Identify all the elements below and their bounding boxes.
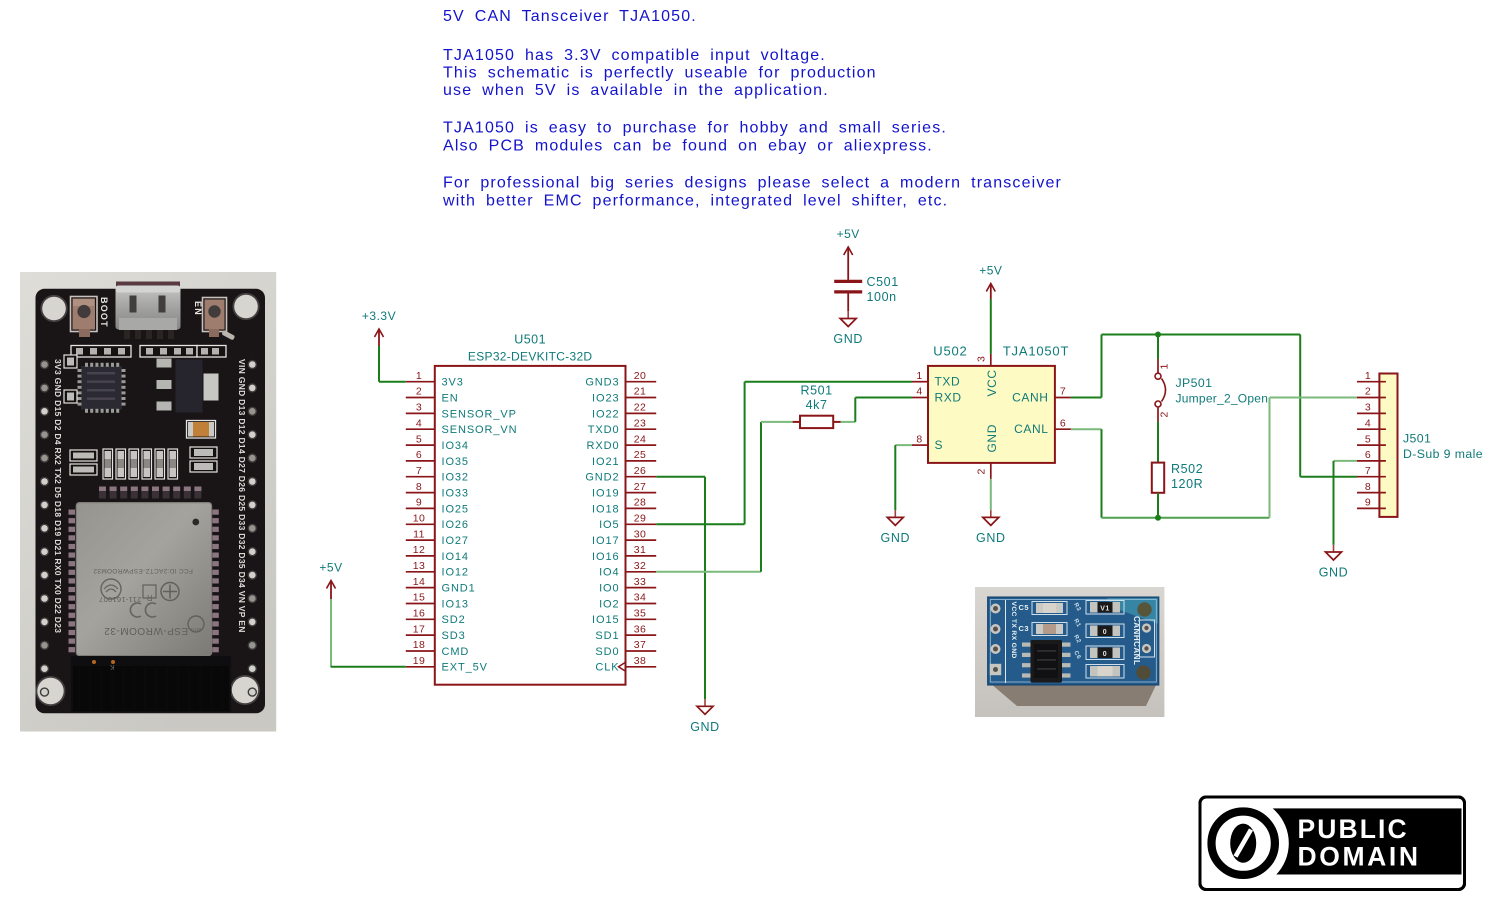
svg-text:20: 20	[634, 370, 646, 382]
svg-text:28: 28	[634, 497, 646, 509]
svg-text:26: 26	[634, 465, 646, 477]
svg-text:2: 2	[1159, 411, 1171, 417]
svg-text:CMD: CMD	[442, 646, 470, 658]
svg-text:RXD: RXD	[935, 390, 962, 404]
svg-text:IO18: IO18	[592, 503, 619, 515]
svg-text:+3.3V: +3.3V	[362, 309, 396, 323]
svg-text:7: 7	[1060, 386, 1066, 398]
svg-text:IO23: IO23	[592, 392, 619, 404]
svg-text:IO32: IO32	[442, 472, 469, 484]
svg-text:2: 2	[976, 468, 988, 474]
svg-text:IO13: IO13	[442, 598, 469, 610]
svg-text:GND: GND	[881, 531, 911, 545]
svg-text:1: 1	[916, 370, 922, 382]
svg-text:16: 16	[413, 608, 425, 620]
svg-text:8: 8	[1365, 481, 1371, 493]
svg-text:3: 3	[416, 402, 422, 414]
svg-text:9: 9	[1365, 497, 1371, 509]
svg-text:2: 2	[416, 386, 422, 398]
svg-text:3V3 GND D15 D2 D4 RX2 TX2 D5: 3V3 GND D15 D2 D4 RX2 TX2 D5 D18 D19 D21…	[53, 359, 63, 633]
svg-text:18: 18	[413, 639, 425, 651]
svg-text:35: 35	[634, 608, 646, 620]
svg-text:9: 9	[416, 497, 422, 509]
svg-text:IO21: IO21	[592, 456, 619, 468]
svg-text:use when 5V is available in th: use when 5V is available in the applicat…	[443, 82, 829, 99]
svg-text:TJA1050 has 3.3V compatible in: TJA1050 has 3.3V compatible input voltag…	[443, 47, 826, 64]
svg-text:27: 27	[634, 481, 646, 493]
svg-text:SENSOR_VN: SENSOR_VN	[442, 424, 518, 436]
svg-text:5V CAN Tansceiver TJA1050.: 5V CAN Tansceiver TJA1050.	[443, 8, 697, 25]
svg-text:19: 19	[413, 655, 425, 667]
svg-text:IO33: IO33	[442, 488, 469, 500]
svg-text:EXT_5V: EXT_5V	[442, 662, 488, 674]
svg-text:R: R	[146, 593, 152, 602]
svg-text:VIN GND D13 D12 D14 D27 D26 D2: VIN GND D13 D12 D14 D27 D26 D25 D33 D32 …	[237, 359, 247, 633]
svg-text:12: 12	[413, 544, 425, 556]
svg-text:6: 6	[416, 449, 422, 461]
svg-text:U501: U501	[514, 333, 546, 347]
svg-text:33: 33	[634, 576, 646, 588]
svg-text:GND: GND	[976, 531, 1006, 545]
svg-text:TJA1050T: TJA1050T	[1003, 344, 1069, 359]
svg-text:5: 5	[1365, 433, 1371, 445]
svg-text:D-Sub 9 male: D-Sub 9 male	[1403, 447, 1483, 461]
svg-text:CLK: CLK	[595, 662, 619, 674]
svg-text:8: 8	[416, 481, 422, 493]
svg-text:J501: J501	[1403, 432, 1431, 446]
svg-text:GND1: GND1	[442, 583, 476, 595]
svg-text:10: 10	[413, 513, 425, 525]
svg-text:ESP32-DEVKITC-32D: ESP32-DEVKITC-32D	[468, 350, 593, 364]
svg-text:37: 37	[634, 639, 646, 651]
svg-text:CANH: CANH	[1012, 390, 1048, 404]
svg-text:36: 36	[634, 623, 646, 635]
svg-text:VCC TX RX GND: VCC TX RX GND	[1010, 602, 1017, 659]
svg-text:IO14: IO14	[442, 551, 469, 563]
svg-text:IO5: IO5	[599, 519, 619, 531]
svg-text:+5V: +5V	[319, 561, 342, 575]
svg-text:IO26: IO26	[442, 519, 469, 531]
svg-text:wifi: wifi	[191, 626, 203, 632]
svg-text:IO17: IO17	[592, 535, 619, 547]
svg-text:21: 21	[634, 386, 646, 398]
svg-text:SD1: SD1	[595, 630, 619, 642]
svg-text:IO35: IO35	[442, 456, 469, 468]
svg-text:1: 1	[1159, 363, 1171, 369]
svg-text:34: 34	[634, 592, 646, 604]
svg-text:38: 38	[634, 655, 646, 667]
svg-text:3: 3	[976, 356, 988, 362]
svg-text:S: S	[935, 438, 944, 452]
svg-text:4: 4	[416, 417, 422, 429]
svg-text:4k7: 4k7	[806, 398, 828, 412]
svg-text:TXD: TXD	[935, 375, 961, 389]
svg-text:GND: GND	[833, 332, 863, 346]
svg-text:0: 0	[1103, 651, 1107, 658]
svg-text:+5V: +5V	[837, 227, 860, 241]
svg-text:2: 2	[1365, 386, 1371, 398]
svg-text:SD3: SD3	[442, 630, 466, 642]
svg-text:11: 11	[413, 528, 425, 540]
svg-text:CANL: CANL	[1014, 422, 1048, 436]
svg-text:IO27: IO27	[442, 535, 469, 547]
svg-text:ESP-WROOM-32: ESP-WROOM-32	[104, 625, 188, 636]
svg-text:25: 25	[634, 449, 646, 461]
svg-text:6: 6	[1060, 417, 1066, 429]
svg-text:EN: EN	[442, 392, 459, 404]
svg-text:EN: EN	[193, 301, 203, 316]
svg-text:R502: R502	[1171, 462, 1203, 476]
svg-text:IO15: IO15	[592, 614, 619, 626]
svg-text:with better EMC performance, i: with better EMC performance, integrated …	[442, 193, 948, 210]
svg-text:C3: C3	[1019, 624, 1030, 633]
svg-text:+5V: +5V	[979, 264, 1002, 278]
svg-text:GND: GND	[1319, 566, 1349, 580]
svg-text:22: 22	[634, 402, 646, 414]
svg-text:15: 15	[413, 592, 425, 604]
svg-text:1: 1	[416, 370, 422, 382]
svg-text:7: 7	[1365, 465, 1371, 477]
svg-text:GND: GND	[985, 424, 999, 452]
svg-text:GND2: GND2	[585, 472, 619, 484]
svg-text:3: 3	[1365, 402, 1371, 414]
svg-text:IO19: IO19	[592, 488, 619, 500]
svg-text:30: 30	[634, 528, 646, 540]
svg-text:4: 4	[1365, 417, 1371, 429]
svg-text:3V3: 3V3	[442, 377, 464, 389]
svg-text:Jumper_2_Open: Jumper_2_Open	[1176, 392, 1269, 406]
svg-text:IO22: IO22	[592, 408, 619, 420]
svg-text:100n: 100n	[867, 290, 897, 304]
svg-text:13: 13	[413, 560, 425, 572]
svg-text:Also PCB modules can be found: Also PCB modules can be found on ebay or…	[443, 138, 933, 155]
svg-text:R501: R501	[800, 383, 832, 397]
svg-text:GND: GND	[690, 720, 720, 734]
svg-text:V1: V1	[1100, 606, 1110, 613]
svg-text:6: 6	[1365, 449, 1371, 461]
svg-text:14: 14	[413, 576, 425, 588]
svg-text:5: 5	[416, 433, 422, 445]
svg-text:BOOT: BOOT	[99, 297, 109, 328]
svg-text:IO0: IO0	[599, 583, 619, 595]
svg-text:FCC ID:2ACTZ-ESPWROOM32: FCC ID:2ACTZ-ESPWROOM32	[93, 567, 193, 574]
svg-text:IO25: IO25	[442, 503, 469, 515]
svg-text:C5: C5	[1019, 603, 1030, 612]
svg-text:32: 32	[634, 560, 646, 572]
svg-text:DOMAIN: DOMAIN	[1298, 842, 1421, 872]
svg-text:SENSOR_VP: SENSOR_VP	[442, 408, 517, 420]
svg-text:For professional big series de: For professional big series designs plea…	[443, 175, 1062, 192]
svg-text:24: 24	[634, 433, 646, 445]
svg-text:IO12: IO12	[442, 567, 469, 579]
svg-text:IO16: IO16	[592, 551, 619, 563]
svg-text:JP501: JP501	[1176, 376, 1213, 390]
svg-text:IO34: IO34	[442, 440, 469, 452]
svg-text:29: 29	[634, 513, 646, 525]
svg-text:U502: U502	[933, 344, 967, 359]
svg-text:GND3: GND3	[585, 377, 619, 389]
svg-text:0: 0	[1103, 629, 1107, 636]
svg-text:RXD0: RXD0	[587, 440, 620, 452]
svg-text:IO4: IO4	[599, 567, 619, 579]
svg-text:120R: 120R	[1171, 477, 1203, 491]
svg-text:VCC: VCC	[985, 369, 999, 396]
svg-text:IO2: IO2	[599, 598, 619, 610]
svg-text:PUBLIC: PUBLIC	[1298, 814, 1409, 844]
svg-text:This schematic is perfectly us: This schematic is perfectly useable for …	[443, 65, 877, 82]
svg-text:4: 4	[916, 386, 922, 398]
svg-text:TXD0: TXD0	[588, 424, 620, 436]
svg-text:TJA1050 is easy to purchase fo: TJA1050 is easy to purchase for hobby an…	[443, 120, 947, 137]
svg-text:1: 1	[1365, 370, 1371, 382]
svg-text:SD0: SD0	[595, 646, 619, 658]
svg-text:8: 8	[916, 433, 922, 445]
svg-text:17: 17	[413, 623, 425, 635]
svg-text:23: 23	[634, 417, 646, 429]
svg-text:31: 31	[634, 544, 646, 556]
svg-text:C501: C501	[867, 275, 899, 289]
svg-text:SD2: SD2	[442, 614, 466, 626]
svg-text:7: 7	[416, 465, 422, 477]
svg-text:K: K	[109, 663, 114, 670]
